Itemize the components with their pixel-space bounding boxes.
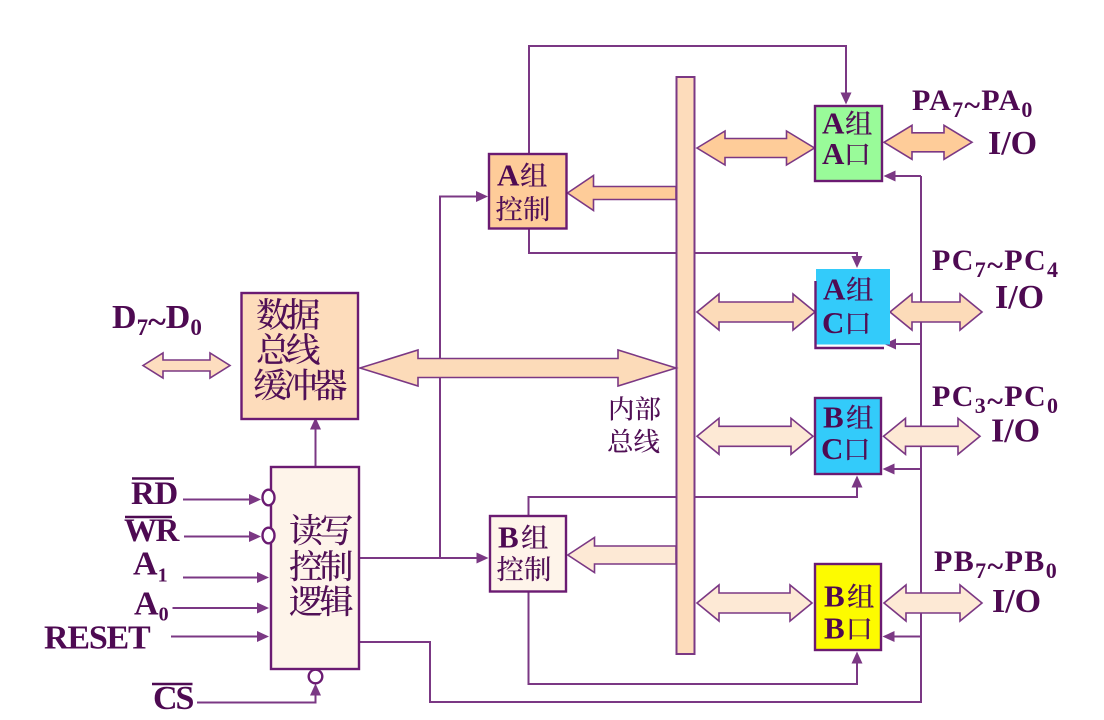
Port B box (yellow) [815,564,881,650]
wire RD input [183,499,252,501]
arrowhead into Port B bottom [852,652,863,664]
svg-text:A: A [497,158,520,193]
data bus buffer text line1 [257,298,290,330]
stub into A-group C port right [892,343,921,345]
arrow internal bus to Port B (bidirectional) [697,585,812,621]
svg-text:WR: WR [124,513,181,549]
internal bus bar [677,77,695,654]
wire vertical branch to A-group-control [440,197,480,559]
arrowhead into A-group C port top [852,256,863,268]
wire CS to RW-logic bottom [197,690,316,703]
svg-text:RESET: RESET [44,620,151,657]
B group control box [490,516,566,592]
svg-text:I/O: I/O [988,125,1037,162]
data bus buffer text line2 [258,333,289,364]
svg-text:B: B [823,400,844,435]
arrow B-group C port to PC30 I/O (bidirectional) [884,418,981,454]
arrowhead A0 [257,603,269,614]
arrowhead RESET [257,631,269,642]
WR inversion bubble [263,528,275,544]
arrow internal bus to Port A (bidirectional) [697,131,815,165]
arrow internal bus to B-group-control [568,538,676,573]
arrow buffer to internal bus (bidirectional) [360,350,676,386]
wire B-group-control top to B-group-C-port bottom [529,483,858,516]
label internal bus line2 [608,429,632,453]
arrowhead into Port A top [841,93,852,105]
arrowhead A1 [257,572,269,583]
svg-text:A1: A1 [133,546,168,587]
data bus buffer text line3 [254,368,286,400]
stub into Port A right [892,175,921,177]
svg-text:A: A [823,272,846,307]
arrowhead RD [249,494,261,505]
arrow A-group C port to PC74 I/O (bidirectional) [890,294,982,330]
arrowhead into A-group C port right [884,339,896,350]
arrowhead into A-group-control [476,191,488,202]
stub into B-group C port right [890,468,921,470]
svg-text:C: C [821,431,843,466]
B group control text line2 [497,556,523,581]
svg-text:D7~D0: D7~D0 [112,299,202,341]
svg-text:B: B [824,579,845,614]
svg-text:I/O: I/O [992,583,1041,620]
svg-text:PA7~PA0: PA7~PA0 [912,84,1034,122]
wire RESET input [171,636,260,638]
wire RW-logic bottom feedback to ports right side [359,176,921,702]
wire RW-logic to B-group-control [359,557,481,559]
svg-text:I/O: I/O [991,413,1040,450]
svg-text:C: C [822,305,844,340]
arrowhead into Port B right [883,631,895,642]
svg-text:CS: CS [153,680,194,717]
A group control box [489,154,567,229]
wire WR input [184,536,252,538]
arrow Port A to PA I/O (bidirectional) [884,125,972,159]
arrow Port B to PB I/O (bidirectional) [884,585,982,621]
stub into Port B right [890,636,921,638]
svg-text:I/O: I/O [995,279,1044,316]
arrowhead into B-group-control [477,553,489,564]
wire B-group-control bottom to Port-B bottom [529,592,858,685]
read-write control logic box [271,467,359,669]
arrowhead into B-group C port right [883,464,895,475]
rw logic text line3 [290,586,322,617]
arrowhead into Port A right [884,171,896,182]
svg-text:B: B [824,611,845,646]
arrowhead WR [249,531,261,542]
svg-text:A: A [822,136,845,171]
svg-text:PC7~PC4: PC7~PC4 [932,244,1059,282]
wire A1 input [183,577,260,579]
RD inversion bubble [263,490,275,506]
wire RW-logic to data-bus-buffer [315,424,317,467]
arrowhead into data-bus-buffer bottom [310,418,321,430]
svg-text:B: B [498,520,519,555]
arrow internal bus to A-group-control [568,176,677,211]
arrow internal bus to B-group C port (bidirectional) [697,418,813,454]
rw logic text line1 [290,514,322,545]
arrowhead into B-group C port bottom [852,476,863,488]
label internal bus line1 [611,396,633,420]
wire A-group-control to Port-A top [529,46,846,154]
A group control text line2 [496,196,522,221]
Port A box (A group A port) [815,106,882,181]
B group C port box (cyan) [815,398,881,474]
wire A0 input [173,607,261,609]
arrow internal bus to A-group C port (bidirectional) [697,294,815,330]
CS inversion bubble [309,670,323,684]
arrow D7-D0 to buffer (bidirectional) [143,353,230,378]
wire A-group-control bottom to Port-C-upper top [529,229,857,262]
A group C port shadow border [816,281,885,348]
arrowhead up into CS bubble [310,684,321,696]
data bus buffer box [242,293,359,419]
rw logic text line2 [290,550,322,581]
A group C port box (cyan) [816,269,890,345]
svg-text:RD: RD [131,476,178,512]
svg-text:PB7~PB0: PB7~PB0 [934,545,1058,583]
